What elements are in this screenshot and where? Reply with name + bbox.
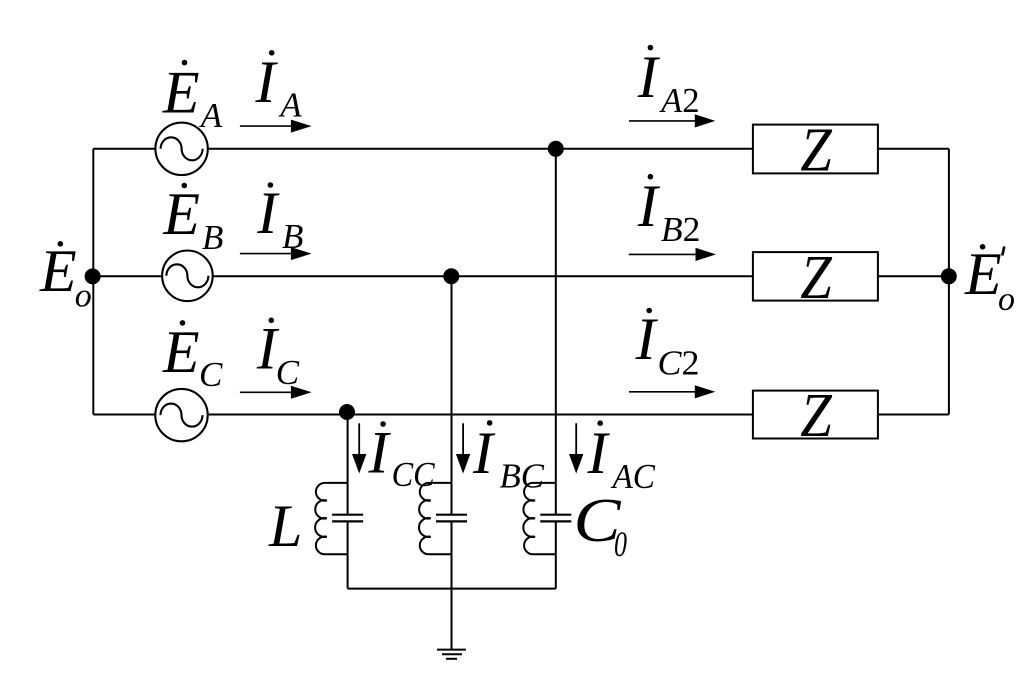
- wire right bus: [948, 149, 950, 415]
- svg-text:B: B: [202, 218, 223, 257]
- node on row A (tank 3 tap): [548, 141, 564, 157]
- svg-text:I: I: [637, 173, 661, 239]
- impedance Z box (phase B): [753, 252, 878, 301]
- svg-text:o: o: [75, 278, 92, 315]
- wire row B right: [878, 275, 949, 277]
- svg-text:A2: A2: [659, 81, 699, 120]
- svg-text:0: 0: [614, 524, 627, 564]
- svg-text:L: L: [268, 493, 302, 559]
- label I_CC: [368, 420, 436, 495]
- label E_o (left): [39, 238, 92, 315]
- svg-text:C: C: [276, 353, 300, 392]
- svg-text:I: I: [472, 420, 496, 486]
- label I_A2: [637, 44, 700, 120]
- svg-text:B: B: [282, 217, 303, 256]
- capacitor C_0 (tank 3): [540, 515, 571, 522]
- wire row C right: [878, 414, 949, 416]
- AC source E_C: [155, 389, 207, 441]
- svg-text:E: E: [162, 59, 200, 125]
- svg-text:B2: B2: [661, 210, 701, 249]
- svg-text:Z: Z: [800, 244, 832, 312]
- wire row A mid: [208, 148, 753, 150]
- svg-text:I: I: [587, 420, 611, 486]
- label I_AC: [587, 420, 656, 496]
- svg-text:Z: Z: [800, 382, 832, 450]
- wire row B mid: [213, 275, 754, 277]
- svg-text:E: E: [162, 319, 200, 385]
- wire tank 1 vertical (upper): [347, 412, 349, 515]
- ground: [437, 650, 466, 659]
- wire row C left: [93, 414, 155, 416]
- inductor L (tank 1): [315, 483, 348, 554]
- label I_A: [255, 49, 303, 125]
- wire tank 2 vertical (lower): [451, 521, 453, 588]
- node E_o (left bus, row B): [85, 268, 101, 284]
- current arrow I_C2: [629, 385, 715, 398]
- svg-text:Z: Z: [800, 117, 832, 185]
- svg-text:E: E: [39, 238, 77, 304]
- current arrow I_B2: [629, 248, 716, 261]
- svg-text:C: C: [199, 355, 223, 394]
- label E_A: [162, 59, 223, 134]
- capacitor (tank 1): [332, 515, 363, 522]
- svg-text:I: I: [256, 180, 280, 246]
- svg-text:E: E: [162, 181, 200, 247]
- svg-text:C2: C2: [658, 344, 700, 383]
- current arrow I_A2: [629, 114, 715, 127]
- node E_o' (right bus, row B): [941, 268, 957, 284]
- wire left bus: [92, 149, 94, 415]
- node on row C (tank 1 tap): [339, 404, 355, 420]
- current arrow I_A: [240, 120, 312, 133]
- svg-text:A: A: [199, 96, 223, 135]
- current arrow I_AC (down): [569, 423, 583, 473]
- label I_C: [256, 315, 300, 392]
- current arrow I_BC (down): [456, 423, 470, 473]
- current arrow I_CC (down): [352, 423, 366, 473]
- current arrow I_B: [240, 247, 312, 260]
- current arrow I_C: [240, 386, 312, 399]
- wire tank 2 vertical (upper): [451, 276, 453, 515]
- wire row A left: [93, 148, 155, 150]
- label E_B: [162, 181, 223, 257]
- label I_B2: [637, 173, 701, 249]
- impedance Z box (phase A): [753, 125, 878, 174]
- svg-text:BC: BC: [500, 457, 545, 496]
- label I_C2: [635, 306, 700, 383]
- svg-text:A: A: [278, 86, 302, 125]
- wire bottom rail: [348, 588, 556, 590]
- svg-text:I: I: [635, 306, 659, 372]
- svg-text:I: I: [255, 49, 279, 115]
- wire tank 3 vertical (upper): [555, 149, 557, 515]
- wire row C mid: [208, 414, 753, 416]
- label I_BC: [472, 420, 545, 495]
- inductor (tank 2): [419, 483, 452, 554]
- svg-text:I: I: [368, 420, 392, 486]
- label E_o' (right): [964, 241, 1015, 318]
- svg-text:I: I: [637, 44, 661, 110]
- wire tank 3 vertical (lower): [555, 521, 557, 588]
- AC source E_A: [155, 123, 207, 175]
- svg-text:o: o: [998, 281, 1015, 318]
- AC source E_B: [162, 250, 213, 301]
- svg-text:CC: CC: [392, 455, 436, 494]
- inductor (tank 3): [523, 483, 556, 554]
- impedance Z box (phase C): [753, 391, 878, 439]
- label I_B: [256, 180, 303, 256]
- node on row B (tank 2 tap): [443, 268, 459, 284]
- capacitor (tank 2): [436, 515, 467, 522]
- svg-text:E: E: [964, 241, 1002, 307]
- wire row A right: [878, 148, 949, 150]
- label E_C: [162, 319, 223, 394]
- wire ground stem: [451, 589, 453, 650]
- label C_0: [574, 487, 628, 564]
- wire tank 1 vertical (lower): [347, 521, 349, 588]
- wire row B left: [93, 275, 162, 277]
